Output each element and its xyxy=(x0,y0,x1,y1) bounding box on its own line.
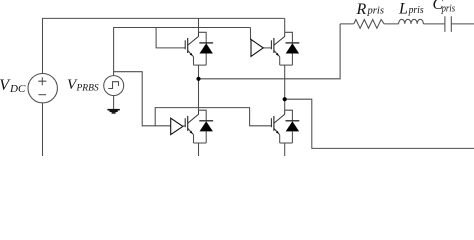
svg-text:pris: pris xyxy=(366,5,384,16)
svg-text:PRBS: PRBS xyxy=(76,83,99,93)
svg-text:R: R xyxy=(356,1,367,18)
svg-text:L: L xyxy=(398,1,408,18)
svg-text:pris: pris xyxy=(408,5,424,16)
svg-text:pris: pris xyxy=(441,4,455,15)
svg-text:DC: DC xyxy=(9,83,26,95)
